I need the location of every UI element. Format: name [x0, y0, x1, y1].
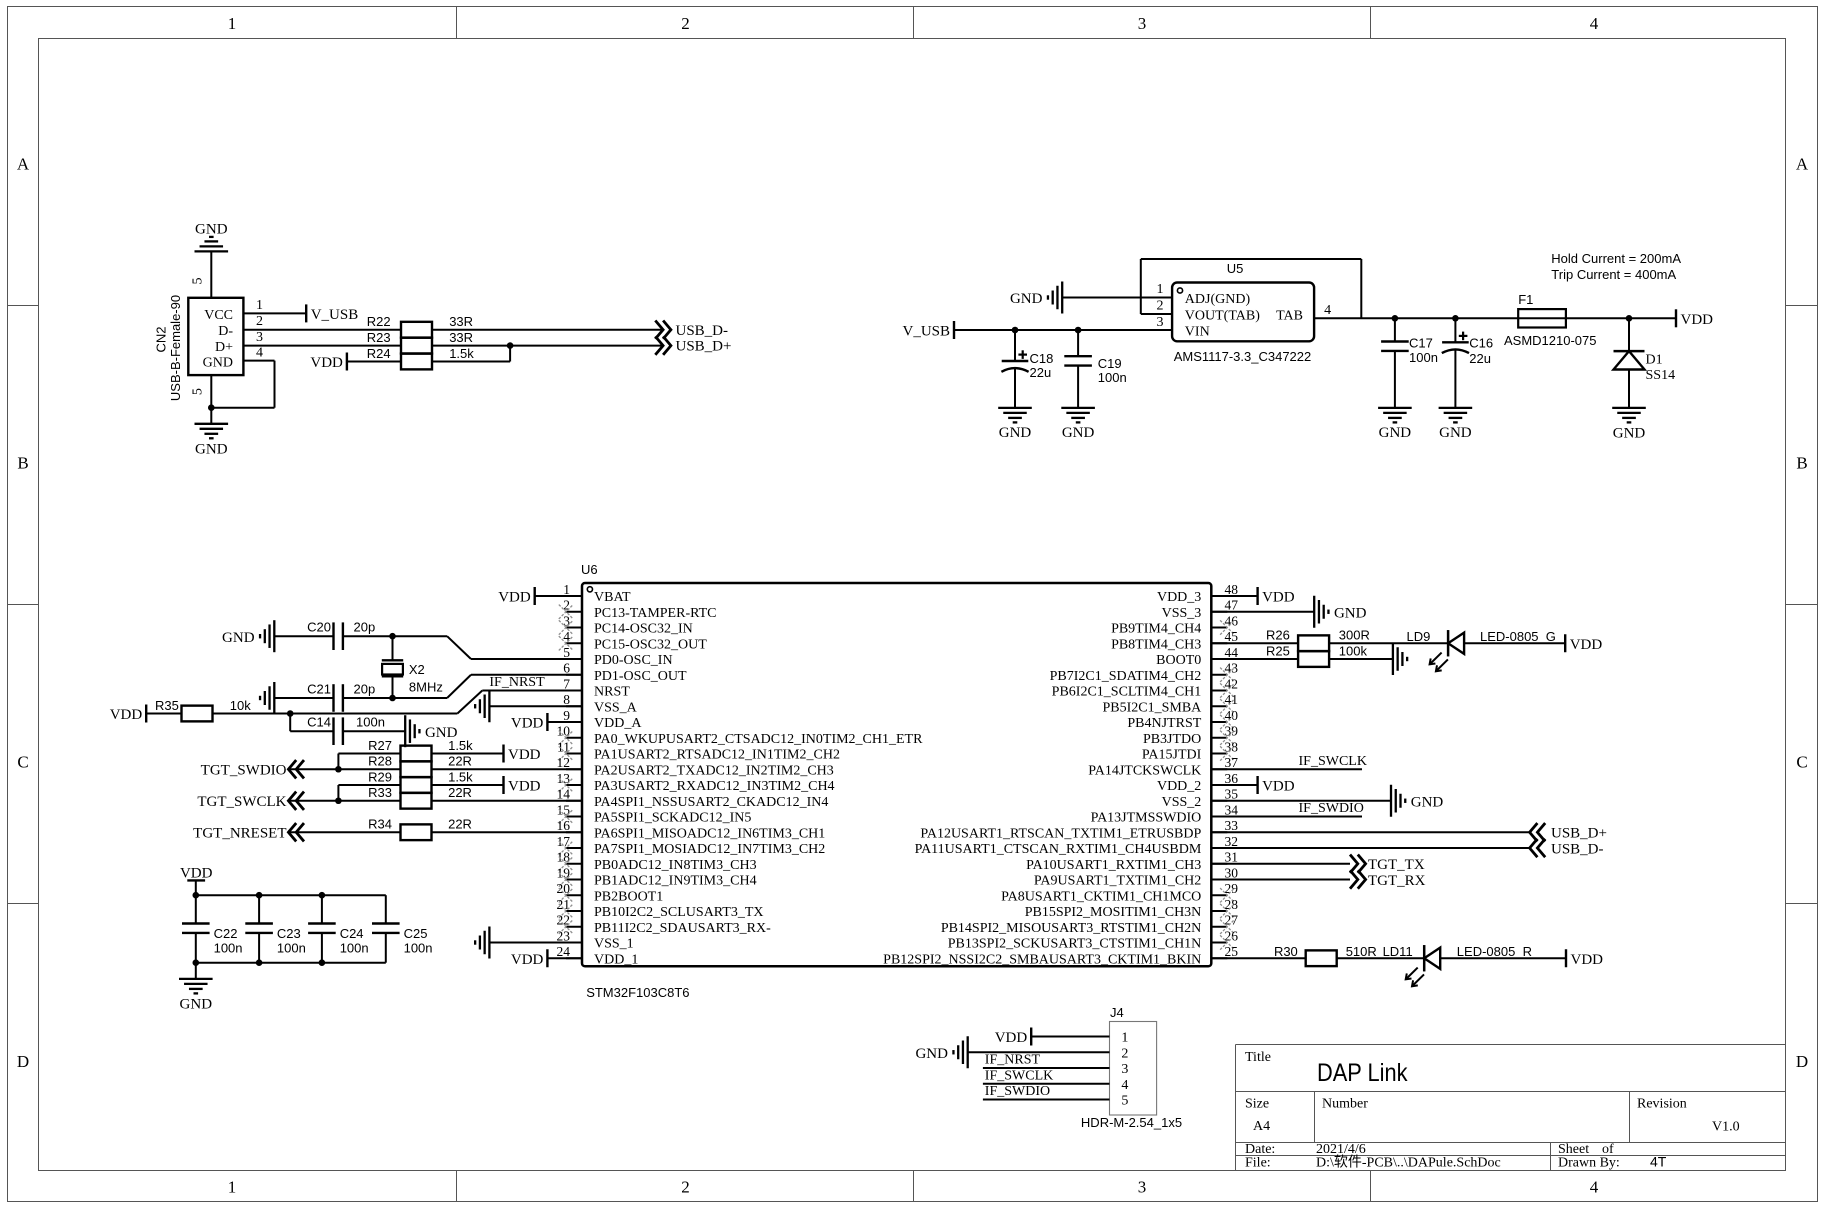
wire U5 pin4 TAB to F1: [1314, 317, 1518, 319]
wire down to C14: [289, 714, 291, 732]
svg-text:C21: C21: [307, 681, 331, 696]
U6 pin 18 PB0ADC12_IN8TIM3_CH3: [566, 863, 582, 865]
svg-text:PB13SPI2_SCKUSART3_CTSTIM1_CH1: PB13SPI2_SCKUSART3_CTSTIM1_CH1N: [948, 937, 1202, 952]
wire to ground: [195, 963, 197, 979]
svg-text:VBAT: VBAT: [594, 590, 631, 605]
resistor R23: [401, 338, 432, 354]
svg-text:33: 33: [1225, 818, 1239, 833]
svg-text:22R: 22R: [448, 785, 472, 800]
svg-text:IF_SWDIO: IF_SWDIO: [1299, 801, 1364, 816]
ground below decoupling bank: [179, 978, 213, 980]
svg-text:GND: GND: [1411, 794, 1444, 810]
svg-text:3: 3: [1121, 1062, 1128, 1077]
svg-text:22R: 22R: [448, 754, 472, 769]
capacitor C21 20p: [332, 684, 334, 712]
svg-text:4: 4: [1590, 1177, 1599, 1196]
U6 pin 46 PB9TIM4_CH4: [1211, 627, 1227, 629]
wire TGT_SWCLK to R33: [288, 800, 400, 802]
LED LD11 LED-0805_R: [1423, 945, 1426, 971]
svg-text:PB10I2C2_SCLUSART3_TX: PB10I2C2_SCLUSART3_TX: [594, 905, 764, 920]
port TGT_RX: [1350, 870, 1358, 888]
wire pin35 to GND: [1211, 800, 1391, 802]
GND power symbol right of C14: [404, 715, 406, 747]
header J4 body: [1110, 1022, 1157, 1116]
ground below C16: [1439, 407, 1473, 409]
svg-text:16: 16: [557, 818, 571, 833]
power port VDD at LD11: [1565, 949, 1567, 967]
U6 pin 14 PA4SPI1_NSSUSART2_CKADC12_IN4: [566, 800, 582, 802]
wire CN2 pin5 bottom: [210, 375, 212, 424]
wire pin33 to USB_D+: [1211, 831, 1529, 833]
svg-text:300R: 300R: [1339, 628, 1370, 643]
svg-text:2: 2: [563, 598, 570, 613]
wire pin34 IF_SWDIO: [1211, 816, 1362, 818]
svg-text:2: 2: [681, 1177, 690, 1196]
capacitor C19 100n: [1077, 330, 1079, 356]
capacitor C23 100n: [258, 895, 260, 923]
svg-text:3: 3: [563, 613, 570, 628]
svg-text:24: 24: [557, 944, 571, 959]
svg-text:VCC: VCC: [204, 308, 233, 323]
U6 pin 20 PB2BOOT1: [566, 894, 582, 896]
svg-text:PA13JTMSSWDIO: PA13JTMSSWDIO: [1091, 811, 1202, 826]
port USB_D- (top): [655, 321, 663, 339]
junction D+ / R24: [507, 342, 514, 349]
svg-text:VDD: VDD: [110, 707, 143, 723]
power port VDD at J4 pin1: [1030, 1028, 1032, 1046]
U6 pin 25 PB12SPI2_NSSI2C2_SMBAUSART3_CKTIM1_BKIN: [1211, 957, 1227, 959]
svg-text:22R: 22R: [448, 817, 472, 832]
svg-text:3: 3: [1138, 1177, 1147, 1196]
resistor R33 22R: [401, 793, 432, 809]
junction top C22: [193, 892, 200, 899]
U6 pin 22 PB11I2C2_SDAUSART3_RX-: [566, 926, 582, 928]
svg-text:B: B: [17, 454, 28, 473]
U5 pin names: [1185, 292, 1303, 340]
resistor R30 510R: [1306, 950, 1337, 966]
svg-text:100n: 100n: [1098, 370, 1127, 385]
U6 pin 10 PA0_WKUPUSART2_CTSADC12_IN0TIM2_CH1_ETR: [566, 737, 582, 739]
svg-text:VOUT(TAB): VOUT(TAB): [1185, 309, 1260, 324]
wire pin47 to GND: [1211, 611, 1314, 613]
svg-text:D+: D+: [215, 340, 233, 355]
svg-text:LED-0805_R: LED-0805_R: [1457, 944, 1532, 959]
svg-text:PB14SPI2_MISOUSART3_RTSTIM1_CH: PB14SPI2_MISOUSART3_RTSTIM1_CH2N: [941, 921, 1201, 936]
svg-text:C: C: [1796, 753, 1807, 772]
junction top C23: [256, 892, 263, 899]
zone column numbers bottom: [228, 1177, 1599, 1196]
U6 pin 34 PA13JTMSSWDIO: [1211, 816, 1227, 818]
svg-text:File:: File:: [1245, 1156, 1271, 1171]
svg-text:5: 5: [191, 388, 206, 395]
svg-text:6: 6: [563, 661, 570, 676]
U6 pin 26 PB13SPI2_SCKUSART3_CTSTIM1_CH1N: [1211, 942, 1227, 944]
wire R24 up to D+: [432, 361, 510, 363]
U6 pin 38 PA15JTDI: [1211, 753, 1227, 755]
svg-text:USB_D+: USB_D+: [676, 339, 732, 355]
svg-text:GND: GND: [1010, 291, 1043, 307]
U6 pin 27 PB14SPI2_MISOUSART3_RTSTIM1_CH2N: [1211, 926, 1227, 928]
U6 pin 16 PA6SPI1_MISOADC12_IN6TIM3_CH1: [566, 831, 582, 833]
ground below C19: [1061, 407, 1095, 409]
decoupling bottom rail: [196, 962, 386, 964]
wire VDD to R35: [146, 713, 182, 715]
svg-text:20p: 20p: [354, 620, 376, 635]
resistor R26 300R: [1298, 635, 1329, 651]
CN2 pin names: [203, 308, 234, 371]
svg-text:PA0_WKUPUSART2_CTSADC12_IN0TIM: PA0_WKUPUSART2_CTSADC12_IN0TIM2_CH1_ETR: [594, 732, 923, 747]
svg-text:GND: GND: [203, 356, 233, 371]
U6 pin 13 PA3USART2_RXADC12_IN3TIM2_CH4: [566, 784, 582, 786]
wire GND to C20: [274, 635, 333, 637]
junction bottom C24: [319, 959, 326, 966]
U6 pin 45 PB8TIM4_CH3: [1211, 642, 1227, 644]
svg-text:PB12SPI2_NSSI2C2_SMBAUSART3_CK: PB12SPI2_NSSI2C2_SMBAUSART3_CKTIM1_BKIN: [883, 952, 1201, 967]
svg-text:C19: C19: [1098, 356, 1122, 371]
wire CN2 pin3 (D+) to R23: [243, 345, 401, 347]
wire pin23 to GND: [489, 942, 582, 944]
junction R29/R33 tie: [335, 797, 342, 804]
GND power symbol at R25: [1392, 643, 1394, 675]
svg-text:C25: C25: [404, 926, 428, 941]
junction C18: [1012, 327, 1019, 334]
wire TGT_SWDIO to R28: [288, 768, 400, 770]
U6 pin 39 PB3JTDO: [1211, 737, 1227, 739]
svg-text:STM32F103C8T6: STM32F103C8T6: [586, 985, 689, 1000]
svg-text:100n: 100n: [356, 715, 385, 730]
resistor R25 100k: [1298, 651, 1329, 667]
wire R34 to PA6 (pin16): [432, 831, 583, 833]
svg-text:A: A: [17, 155, 30, 174]
svg-text:R34: R34: [368, 817, 392, 832]
ground below D1: [1612, 407, 1646, 409]
svg-text:PA12USART1_RTSCAN_TXTIM1_ETRUS: PA12USART1_RTSCAN_TXTIM1_ETRUSBDP: [920, 826, 1201, 841]
U6 pin 7 NRST: [566, 690, 582, 692]
svg-text:12: 12: [557, 755, 571, 770]
svg-text:TGT_NRESET: TGT_NRESET: [193, 825, 286, 841]
ground below C17: [1378, 407, 1412, 409]
GND power symbol at U6 pin35 VSS_2: [1390, 785, 1392, 817]
svg-text:C14: C14: [307, 715, 331, 730]
svg-text:CN2: CN2: [154, 326, 169, 352]
svg-text:37: 37: [1225, 755, 1239, 770]
wire VDD to J4 pin1: [1031, 1036, 1109, 1038]
U6 pin 5 PD0-OSC_IN: [566, 658, 582, 660]
svg-text:33R: 33R: [449, 330, 473, 345]
resistor R27 1.5k: [401, 746, 432, 762]
svg-text:25: 25: [1225, 944, 1239, 959]
U6 pin 43 PB7I2C1_SDATIM4_CH2: [1211, 674, 1227, 676]
resistor R22: [401, 322, 432, 338]
svg-text:PB0ADC12_IN8TIM3_CH3: PB0ADC12_IN8TIM3_CH3: [594, 858, 757, 873]
svg-text:TAB: TAB: [1276, 309, 1303, 324]
U6 pin 17 PA7SPI1_MOSIADC12_IN7TIM3_CH2: [566, 847, 582, 849]
svg-text:32: 32: [1225, 834, 1239, 849]
svg-text:VDD_1: VDD_1: [594, 952, 638, 967]
svg-text:GND: GND: [1334, 605, 1367, 621]
wire R27 left tie: [338, 753, 400, 755]
wire LD9 to VDD: [1464, 642, 1565, 644]
power port VDD at R29: [502, 776, 504, 794]
wire pin8 to GND: [489, 705, 582, 707]
svg-text:USB_D+: USB_D+: [1551, 826, 1607, 842]
svg-text:D1: D1: [1646, 352, 1663, 367]
svg-text:2: 2: [681, 14, 690, 33]
wire R35 to NRST (pin7): [213, 713, 458, 715]
wire pin48 to VDD: [1211, 595, 1257, 597]
svg-text:2: 2: [256, 314, 263, 329]
GND power symbol at U6 pin47 VSS_3: [1313, 596, 1315, 628]
power port VDD at U6 pin48 VDD_3: [1256, 587, 1258, 605]
svg-text:PB2BOOT1: PB2BOOT1: [594, 889, 663, 904]
wire J4 pin4 IF_SWCLK: [983, 1083, 1110, 1085]
svg-text:PA9USART1_TXTIM1_CH2: PA9USART1_TXTIM1_CH2: [1034, 874, 1201, 889]
zone column numbers top: [228, 14, 1599, 33]
wire VDD to pin1: [535, 595, 582, 597]
wire R30 to LD11: [1337, 957, 1424, 959]
power port VDD (supply output): [1675, 309, 1677, 327]
wire R27 to VDD: [432, 753, 504, 755]
svg-text:4: 4: [1121, 1078, 1128, 1093]
svg-text:PC15-OSC32_OUT: PC15-OSC32_OUT: [594, 637, 707, 652]
svg-text:4T: 4T: [1650, 1154, 1667, 1170]
U6 pin 21 PB10I2C2_SCLUSART3_TX: [566, 910, 582, 912]
svg-text:R22: R22: [367, 314, 391, 329]
svg-text:VSS_1: VSS_1: [594, 937, 634, 952]
GND power symbol at U6 pin23 VSS_1: [488, 927, 490, 959]
power port VDD at U6 pin1 VBAT: [534, 587, 536, 605]
capacitor C22 100n: [195, 895, 197, 923]
svg-text:C24: C24: [340, 926, 364, 941]
wire R22 to USB_D- port: [432, 329, 663, 331]
GND power symbol left of C20: [273, 620, 275, 652]
svg-text:PA1USART2_RTSADC12_IN1TIM2_CH2: PA1USART2_RTSADC12_IN1TIM2_CH2: [594, 748, 840, 763]
svg-text:Number: Number: [1322, 1097, 1368, 1112]
capacitor C18 22u: [1014, 330, 1016, 361]
svg-text:PB9TIM4_CH4: PB9TIM4_CH4: [1111, 622, 1201, 637]
svg-text:A4: A4: [1253, 1119, 1270, 1134]
svg-text:PB15SPI2_MOSITIM1_CH3N: PB15SPI2_MOSITIM1_CH3N: [1025, 905, 1202, 920]
svg-text:8MHz: 8MHz: [409, 680, 443, 695]
wire V_USB rail to U5 VIN: [954, 329, 1172, 331]
svg-text:PB4NJTRST: PB4NJTRST: [1127, 716, 1201, 731]
svg-text:23: 23: [557, 928, 571, 943]
junction R35/C14: [287, 710, 294, 717]
capacitor C25 100n: [385, 895, 387, 923]
svg-text:1: 1: [228, 1177, 237, 1196]
svg-text:VDD: VDD: [498, 590, 531, 606]
U6 pin 15 PA5SPI1_SCKADC12_IN5: [566, 816, 582, 818]
svg-text:A: A: [1796, 155, 1809, 174]
wire CN2 pin4 loop: [243, 360, 274, 362]
svg-text:GND: GND: [1439, 425, 1472, 441]
wire R26 to LD9: [1329, 642, 1448, 644]
svg-text:PA11USART1_CTSCAN_RXTIM1_CH4US: PA11USART1_CTSCAN_RXTIM1_CH4USBDM: [915, 842, 1202, 857]
U6 pin 30 PA9USART1_TXTIM1_CH2: [1211, 879, 1227, 881]
svg-text:PB8TIM4_CH3: PB8TIM4_CH3: [1111, 637, 1201, 652]
svg-text:PA6SPI1_MISOADC12_IN6TIM3_CH1: PA6SPI1_MISOADC12_IN6TIM3_CH1: [594, 826, 825, 841]
U6 pin 6 PD1-OSC_OUT: [566, 674, 582, 676]
U6 pin 24 VDD_1: [566, 957, 582, 959]
svg-text:PA4SPI1_NSSUSART2_CKADC12_IN4: PA4SPI1_NSSUSART2_CKADC12_IN4: [594, 795, 828, 810]
svg-text:4: 4: [256, 346, 263, 361]
svg-text:VSS_3: VSS_3: [1162, 606, 1202, 621]
GND power symbol at U5 ADJ: [1061, 282, 1063, 314]
CN2 pin numbers 1-4: [256, 298, 263, 361]
svg-text:1.5k: 1.5k: [448, 769, 473, 784]
port USB_D+ (top): [655, 336, 663, 354]
svg-text:D: D: [17, 1052, 29, 1071]
wire pin44 to R25: [1211, 658, 1298, 660]
svg-text:GND: GND: [195, 441, 228, 457]
svg-text:IF_NRST: IF_NRST: [985, 1053, 1041, 1068]
svg-text:2: 2: [1157, 299, 1164, 314]
svg-text:Trip Current = 400mA: Trip Current = 400mA: [1551, 267, 1676, 282]
svg-text:VDD: VDD: [1262, 779, 1295, 795]
decoupling top rail: [196, 894, 386, 896]
svg-text:D-: D-: [218, 324, 233, 339]
svg-text:TGT_SWCLK: TGT_SWCLK: [197, 794, 286, 810]
svg-text:U6: U6: [581, 562, 598, 577]
svg-text:USB_D-: USB_D-: [1551, 841, 1604, 857]
svg-text:VSS_2: VSS_2: [1162, 795, 1202, 810]
U6 pin 32 PA11USART1_CTSCAN_RXTIM1_CH4USBDM: [1211, 847, 1227, 849]
wire VDD down: [195, 880, 197, 895]
svg-text:35: 35: [1225, 787, 1239, 802]
U5 pin1 marker dot: [1177, 288, 1182, 293]
power port VDD at U6 pin9 VDD_A: [546, 713, 548, 731]
svg-text:LD11: LD11: [1383, 944, 1413, 959]
svg-text:2: 2: [1121, 1046, 1128, 1061]
wire C21 to OSC_OUT (pin6): [343, 697, 447, 699]
svg-text:TGT_SWDIO: TGT_SWDIO: [201, 762, 287, 778]
power port VDD at LD9: [1564, 634, 1566, 652]
svg-text:C23: C23: [277, 926, 301, 941]
capacitor C17 100n: [1394, 318, 1396, 341]
MCU U6 body: [582, 583, 1211, 966]
junction C19: [1075, 327, 1082, 334]
svg-text:R25: R25: [1266, 643, 1290, 658]
GND power symbol at U6 pin8 VSS_A: [488, 690, 490, 722]
svg-text:R35: R35: [155, 698, 179, 713]
junction bottom C22: [193, 959, 200, 966]
U6 pin 31 PA10USART1_RXTIM1_CH3: [1211, 863, 1227, 865]
wire pin30 to TGT_RX: [1211, 879, 1350, 881]
svg-text:PB11I2C2_SDAUSART3_RX-: PB11I2C2_SDAUSART3_RX-: [594, 921, 771, 936]
svg-text:VDD: VDD: [511, 952, 544, 968]
svg-text:GND: GND: [195, 222, 228, 238]
wire C14 to GND: [343, 730, 405, 732]
svg-text:1: 1: [256, 298, 263, 313]
wire R29 to VDD: [432, 784, 504, 786]
svg-text:VDD: VDD: [995, 1030, 1028, 1046]
GND power symbol left of C21: [273, 682, 275, 714]
svg-text:V_USB: V_USB: [902, 324, 950, 340]
svg-text:DAP Link: DAP Link: [1317, 1059, 1408, 1087]
svg-text:C22: C22: [214, 926, 238, 941]
svg-text:100k: 100k: [1339, 643, 1368, 658]
svg-text:IF_SWCLK: IF_SWCLK: [1299, 754, 1367, 769]
U6 pin 11 PA1USART2_RTSADC12_IN1TIM2_CH2: [566, 753, 582, 755]
svg-text:USB_D-: USB_D-: [676, 323, 729, 339]
svg-text:Hold Current = 200mA: Hold Current = 200mA: [1551, 251, 1681, 266]
power port VDD at R24: [346, 353, 348, 371]
power port V_USB: [305, 304, 307, 322]
svg-text:R23: R23: [367, 330, 391, 345]
U6 pin 29 PA8USART1_CKTIM1_CH1MCO: [1211, 894, 1227, 896]
svg-text:PB1ADC12_IN9TIM3_CH4: PB1ADC12_IN9TIM3_CH4: [594, 874, 757, 889]
svg-text:ASMD1210-075: ASMD1210-075: [1504, 333, 1597, 348]
svg-text:C20: C20: [307, 620, 331, 635]
svg-text:45: 45: [1225, 629, 1239, 644]
wire GND to U5 pin1: [1062, 297, 1172, 299]
wire F1 to VDD: [1566, 317, 1676, 319]
svg-text:VDD_3: VDD_3: [1157, 590, 1201, 605]
svg-text:3: 3: [256, 330, 263, 345]
title block grid: [1236, 1045, 1786, 1171]
junction C17: [1392, 315, 1399, 322]
diode D1 SS14: [1628, 318, 1630, 351]
junction crystal bottom: [389, 695, 396, 702]
svg-text:PA2USART2_TXADC12_IN2TIM2_CH3: PA2USART2_TXADC12_IN2TIM2_CH3: [594, 763, 834, 778]
wire pin25 to R30: [1211, 957, 1305, 959]
U6 pin 1 VBAT: [566, 595, 582, 597]
wire VDD to pin9: [547, 721, 582, 723]
svg-text:C16: C16: [1469, 336, 1493, 351]
svg-text:VDD: VDD: [1570, 637, 1603, 653]
svg-text:R28: R28: [368, 754, 392, 769]
svg-text:510R: 510R: [1346, 944, 1377, 959]
svg-text:1: 1: [563, 582, 570, 597]
svg-text:D: D: [1796, 1052, 1808, 1071]
U6 pin 8 VSS_A: [566, 705, 582, 707]
svg-text:HDR-M-2.54_1x5: HDR-M-2.54_1x5: [1081, 1115, 1182, 1130]
power port VDD at R27: [502, 745, 504, 763]
wire C20 to OSC_IN (pin5): [343, 635, 447, 637]
U6 pin 33 PA12USART1_RTSCAN_TXTIM1_ETRUSBDP: [1211, 831, 1227, 833]
svg-text:IF_SWDIO: IF_SWDIO: [985, 1084, 1050, 1099]
svg-text:R27: R27: [368, 738, 392, 753]
svg-text:PA8USART1_CKTIM1_CH1MCO: PA8USART1_CKTIM1_CH1MCO: [1001, 889, 1201, 904]
wire GND to J4 pin2: [968, 1051, 1110, 1053]
fuse F1: [1518, 309, 1566, 327]
svg-text:VDD: VDD: [1571, 952, 1604, 968]
svg-text:7: 7: [563, 676, 570, 691]
wire R33 to PA4 (pin14): [432, 800, 583, 802]
svg-text:IF_NRST: IF_NRST: [489, 675, 545, 690]
svg-text:U5: U5: [1227, 261, 1244, 276]
U6 pin 36 VDD_2: [1211, 784, 1227, 786]
wire TGT_NRESET to R34: [288, 831, 400, 833]
svg-text:VDD_2: VDD_2: [1157, 779, 1201, 794]
svg-text:34: 34: [1225, 802, 1239, 817]
regulator U5 body: [1172, 283, 1314, 342]
svg-text:AMS1117-3.3_C347222: AMS1117-3.3_C347222: [1174, 349, 1312, 364]
junction bottom C23: [256, 959, 263, 966]
svg-text:GND: GND: [222, 630, 255, 646]
title block labels: [1245, 1050, 1740, 1171]
svg-text:VDD_A: VDD_A: [594, 716, 642, 731]
svg-text:C17: C17: [1409, 336, 1433, 351]
svg-text:9: 9: [563, 708, 570, 723]
junction CN2 pin5/pin4: [208, 404, 215, 411]
wire U5 pin2 VOUT loop to TAB rail: [1141, 313, 1172, 315]
U6 pin 2 PC13-TAMPER-RTC: [566, 611, 582, 613]
svg-text:10k: 10k: [230, 698, 251, 713]
capacitor C24 100n: [321, 895, 323, 923]
svg-text:8: 8: [563, 692, 570, 707]
U6 pin 44 BOOT0: [1211, 658, 1227, 660]
